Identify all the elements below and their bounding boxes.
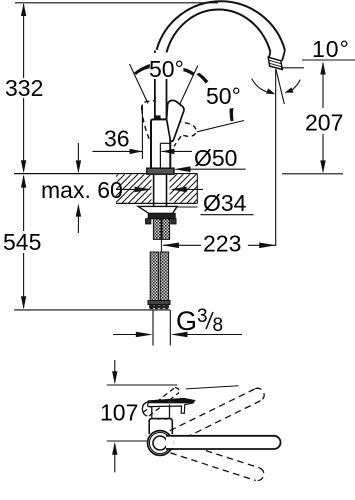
dimension 332 — [5, 3, 43, 173]
left leader line of 50deg — [130, 64, 149, 104]
svg-text:3: 3 — [197, 306, 208, 327]
svg-text:207: 207 — [305, 110, 343, 136]
left arrowhead of 50deg — [134, 64, 150, 75]
dashed lever tilted left — [142, 101, 154, 140]
tilted outlet axis line (10deg) — [276, 69, 284, 104]
dashed lever tilted right-down — [174, 121, 196, 147]
svg-text:max. 60: max. 60 — [41, 177, 123, 203]
top reference line — [15, 2, 218, 4]
dimension 223 — [162, 231, 276, 257]
svg-text:36: 36 — [104, 126, 130, 152]
spout tube front (solid) — [170, 436, 280, 449]
hub middle ring — [149, 432, 170, 453]
front view: lever bar — [148, 399, 195, 414]
base flange — [147, 168, 174, 174]
10deg swing arc left — [252, 79, 267, 92]
svg-text:G: G — [176, 306, 197, 336]
svg-text:10°: 10° — [312, 36, 350, 62]
spout tip tube — [269, 50, 285, 61]
counter bottom reference line (hose end) — [14, 309, 170, 311]
nut feet right — [171, 219, 176, 224]
white mask for 50 deg label 1 — [148, 53, 188, 79]
second 50deg arrowhead upper (on lever axis line) — [196, 73, 208, 84]
svg-text:50°: 50° — [206, 83, 241, 109]
10 deg underline — [302, 59, 355, 61]
solid lever handle — [167, 100, 184, 141]
dimension max. 60 — [41, 143, 123, 233]
spout column / lever shaft — [154, 51, 156, 120]
hoses lower — [150, 252, 168, 301]
svg-text:223: 223 — [203, 231, 241, 257]
svg-text:107: 107 — [100, 400, 138, 426]
threaded studs / hoses upper — [153, 219, 169, 240]
shank through counter — [153, 174, 155, 213]
nut feet left — [146, 219, 151, 224]
spout arc inner — [167, 10, 271, 52]
aerator — [268, 57, 282, 69]
mounting washer plate — [138, 206, 197, 213]
dimension 545 — [3, 175, 41, 310]
second 50deg lower leader line (dashed lever axis) — [197, 121, 244, 132]
dimension 36 — [93, 105, 193, 160]
G3/8 dimension arrows — [113, 310, 242, 346]
label G 3/8 — [176, 306, 223, 336]
front view body — [149, 419, 172, 434]
dimension 107 — [100, 360, 138, 472]
lever bar dark top edge — [148, 399, 194, 404]
front view: dashed raised lever — [143, 388, 179, 417]
lever neck — [152, 405, 170, 419]
faucet body — [151, 119, 170, 171]
hub inner hole — [153, 436, 167, 450]
svg-text:332: 332 — [5, 75, 43, 101]
hose centerline in gap — [160, 239, 162, 252]
107 bottom reference line — [107, 440, 148, 442]
outlet horizontal reference — [281, 67, 304, 69]
spout arc outer — [157, 1, 285, 50]
hose end fitting — [148, 301, 170, 310]
spout outlet vertical reference line — [275, 69, 277, 246]
svg-text:50°: 50° — [149, 56, 184, 82]
spout hub outer ring — [148, 431, 173, 456]
label diameter 34 — [116, 187, 254, 216]
counter hatch band — [116, 174, 197, 204]
right leader line of 50deg — [179, 66, 198, 108]
second 50deg arrowhead lower — [230, 108, 234, 121]
label diameter 50 — [174, 145, 246, 172]
svg-text:Ø34: Ø34 — [203, 190, 247, 216]
counter top line left — [14, 173, 197, 175]
lever left bulge — [142, 402, 148, 416]
dimension 207 — [282, 62, 343, 174]
svg-text:545: 545 — [3, 229, 41, 255]
right arrowhead of 50deg — [183, 68, 194, 76]
lever pivot nub — [154, 115, 160, 119]
svg-text:Ø50: Ø50 — [194, 145, 237, 171]
dashed swivel spout lower — [170, 441, 263, 481]
neck dashed line — [157, 418, 169, 420]
mounting nut — [148, 213, 175, 218]
svg-text:8: 8 — [213, 315, 224, 336]
body interior step — [160, 142, 170, 144]
dashed swivel spout upper — [170, 388, 264, 442]
lever tip extension line — [186, 386, 239, 389]
tube attach mask — [166, 437, 173, 449]
10deg swing arc right — [292, 80, 300, 90]
107 top reference line — [107, 384, 177, 386]
